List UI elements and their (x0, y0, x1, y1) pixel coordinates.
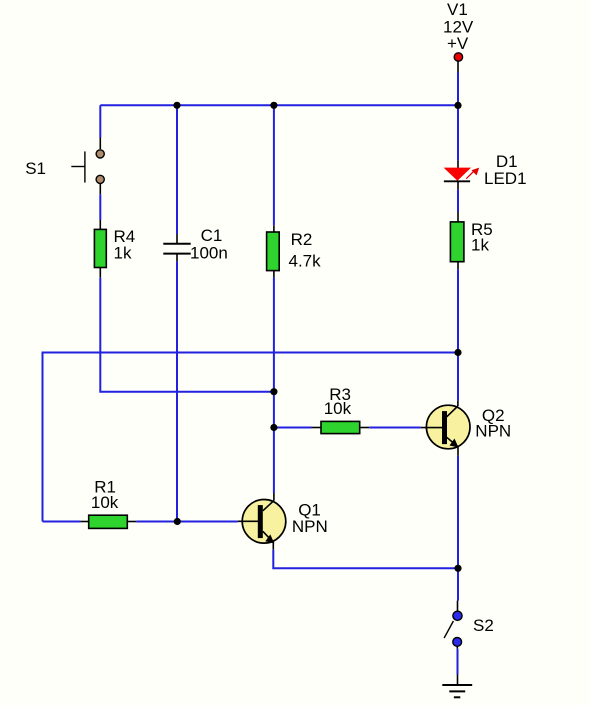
svg-text:C1: C1 (201, 226, 223, 245)
svg-text:10k: 10k (324, 399, 352, 418)
wire top rail (100, 104, 458, 106)
svg-text:1k: 1k (471, 236, 489, 255)
resistor R2 (267, 225, 280, 277)
svg-text:NPN: NPN (292, 517, 328, 536)
wire R2 down to Q1 collector (273, 277, 275, 493)
junction feedback at Q2 collector (454, 349, 461, 356)
junction R3 row at R2 line (270, 424, 277, 431)
svg-text:10k: 10k (91, 493, 119, 512)
svg-text:V1: V1 (447, 0, 468, 19)
wire C1 down to R1 node (176, 261, 178, 521)
resistor R3 (312, 421, 370, 433)
wire R2 branch top (273, 105, 275, 225)
resistor R4 (94, 220, 106, 278)
switch S1 (71, 138, 104, 195)
junction top rail at C1 (173, 102, 180, 109)
svg-text:4.7k: 4.7k (289, 251, 322, 270)
transistor Q1 (238, 493, 286, 550)
wire C1 branch top (176, 105, 178, 234)
svg-text:+V: +V (447, 34, 469, 53)
resistor R1 (81, 515, 137, 528)
junction top rail at R2 (270, 102, 277, 109)
svg-text:LED1: LED1 (484, 169, 527, 188)
junction R1 at C1 line (174, 518, 181, 525)
wire feedback rail (43, 353, 459, 522)
wire Q2 emitter down (457, 456, 459, 601)
svg-text:1k: 1k (114, 244, 132, 263)
junction bottom rail at Q2 emitter (454, 565, 461, 572)
capacitor C1 (163, 234, 190, 261)
wire Q1 emitter to bottom rail (273, 550, 458, 569)
LED D1 (444, 161, 480, 190)
wire S1 branch top (99, 105, 101, 137)
power terminal V1 +V (454, 53, 462, 72)
wire R3 row left (274, 427, 312, 429)
wire S1 to R4 (99, 194, 101, 220)
junction R4 branch at R2 line (270, 388, 277, 395)
wire R3 to Q2 base (369, 427, 421, 429)
wire R4 down and right to R2 node (100, 278, 274, 392)
wire R5 to Q2 collector (457, 269, 459, 400)
svg-text:R2: R2 (291, 230, 313, 249)
wire R1 to Q1 base (136, 521, 238, 523)
svg-text:S2: S2 (473, 616, 494, 635)
resistor R5 (450, 212, 464, 269)
svg-text:S1: S1 (25, 159, 46, 178)
ground (442, 675, 472, 698)
wire R1 row left (43, 521, 81, 523)
wire V+ vertical upper (457, 72, 459, 105)
switch S2 (444, 601, 462, 649)
wire S2 to ground (457, 649, 459, 675)
svg-text:100n: 100n (190, 243, 228, 262)
wire V+ to LED (457, 105, 459, 160)
transistor Q2 (421, 401, 470, 456)
svg-text:NPN: NPN (475, 422, 511, 441)
junction top rail at V+ (454, 102, 461, 109)
wire LED to R5 (457, 190, 459, 212)
